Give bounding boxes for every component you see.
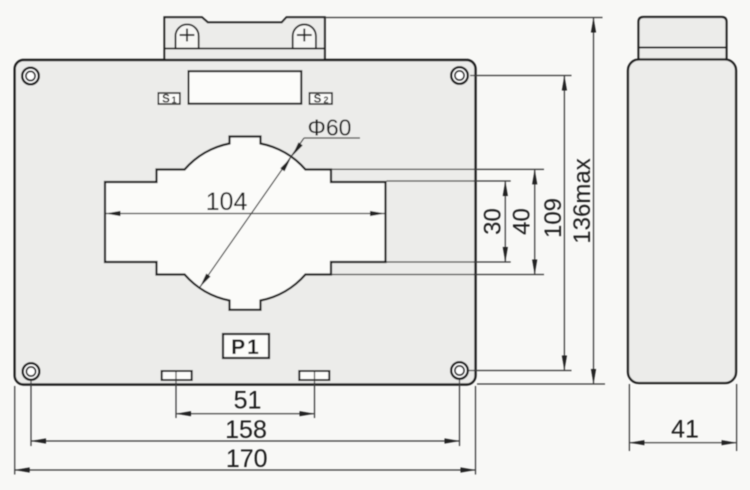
- side view body: [628, 60, 736, 384]
- dimension 158 line: [31, 440, 460, 442]
- svg-text:P1: P1: [231, 336, 261, 359]
- bracket screw right: [293, 24, 316, 48]
- svg-text:40: 40: [509, 208, 536, 235]
- window opening (busbar hole): [105, 137, 386, 310]
- corner screw top-right: [451, 67, 468, 84]
- svg-text:170: 170: [226, 445, 268, 473]
- dimension 51 line: [176, 413, 315, 415]
- name plate: [189, 71, 302, 104]
- svg-text:S: S: [314, 94, 322, 106]
- dimension phi60 leader: [304, 137, 360, 139]
- side view cap separator line: [639, 47, 727, 49]
- P1 terminal label: [223, 334, 269, 358]
- dimension 41 line: [629, 442, 736, 444]
- svg-text:30: 30: [480, 208, 507, 235]
- svg-text:41: 41: [671, 416, 699, 444]
- S1 terminal label: [158, 93, 180, 104]
- bracket screw left: [176, 24, 199, 48]
- dimension 136max line: [593, 18, 595, 385]
- svg-text:109: 109: [540, 198, 567, 238]
- front view body: [15, 60, 476, 385]
- dimension 109 extension lines: [470, 75, 572, 77]
- svg-text:136max: 136max: [569, 158, 596, 243]
- dimension 30 extension lines: [387, 180, 511, 182]
- bracket strip line: [164, 48, 324, 50]
- bottom slot right: [299, 371, 329, 380]
- svg-text:51: 51: [234, 387, 262, 415]
- svg-text:1: 1: [171, 95, 176, 105]
- svg-text:104: 104: [206, 188, 248, 216]
- bottom slot left: [162, 371, 192, 380]
- dimension 170 extension lines: [14, 386, 16, 475]
- svg-text:S: S: [162, 94, 170, 106]
- corner screw top-left: [22, 68, 39, 85]
- svg-text:2: 2: [323, 95, 328, 105]
- svg-text:Φ60: Φ60: [308, 115, 352, 141]
- dimension 40 extension lines: [332, 168, 545, 170]
- bracket screw right cross: [297, 34, 312, 36]
- dimension 40 line: [534, 169, 536, 274]
- bracket screw left cross: [180, 34, 195, 36]
- corner screw bottom-right: [451, 362, 468, 379]
- dimension 104 line: [106, 213, 386, 215]
- svg-text:158: 158: [225, 416, 267, 444]
- dimension 170 line: [15, 469, 476, 471]
- dimension 109 line: [563, 76, 565, 371]
- dimension 158 extension lines: [30, 381, 32, 446]
- side view cap: [639, 17, 727, 60]
- dimension 41 extension lines: [628, 384, 630, 451]
- dimension 136max extension lines: [325, 17, 603, 19]
- dimension 30 line: [504, 181, 506, 262]
- mounting bracket (top of front view): [164, 17, 324, 60]
- S2 terminal label: [310, 93, 333, 104]
- dimension 51 extension lines: [175, 371, 177, 418]
- corner screw bottom-left: [23, 363, 40, 380]
